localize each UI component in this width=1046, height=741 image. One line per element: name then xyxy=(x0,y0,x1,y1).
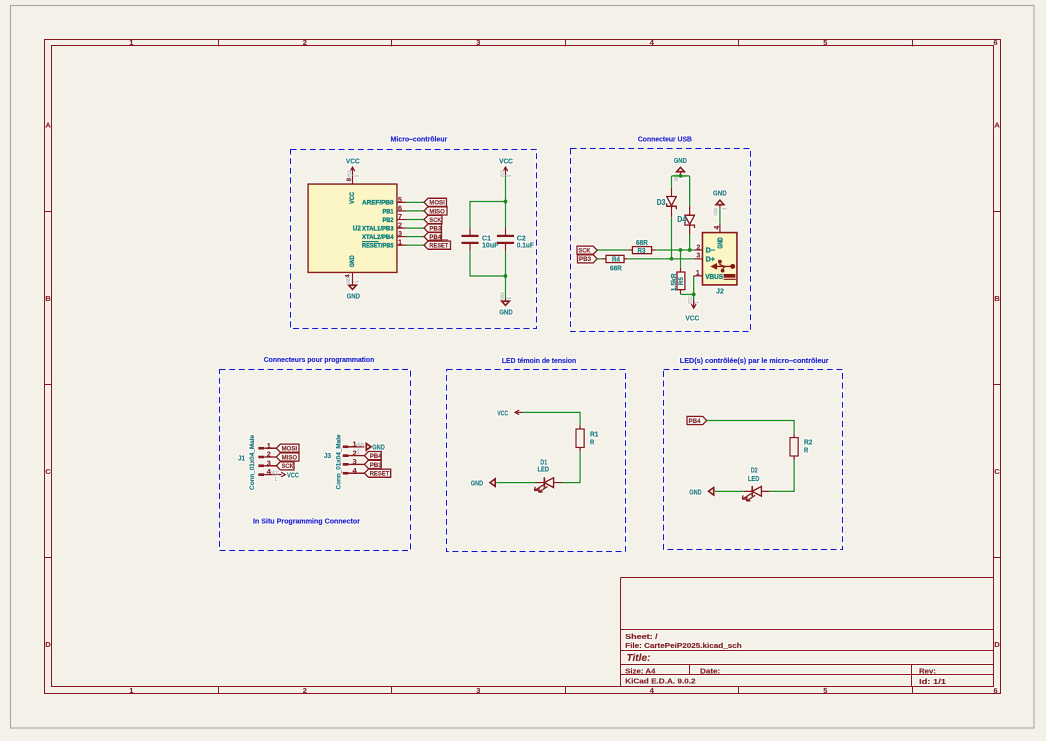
svg-text:RESET: RESET xyxy=(429,243,448,250)
capacitor C1 xyxy=(461,228,478,252)
global label PB4 LED2 xyxy=(687,416,707,424)
LED D1 xyxy=(535,477,563,492)
svg-text:68R: 68R xyxy=(636,240,648,247)
svg-text:Rev:: Rev: xyxy=(919,666,936,675)
global label SCK usb xyxy=(577,246,597,254)
connector J2 body xyxy=(702,233,737,286)
J1 pin numbers xyxy=(267,441,272,476)
R5 labels xyxy=(669,273,685,291)
svg-text:RESET/PB5: RESET/PB5 xyxy=(362,243,394,250)
svg-text:GND: GND xyxy=(674,156,688,165)
junction VCC rail xyxy=(504,200,508,204)
svg-text:GND: GND xyxy=(717,237,724,248)
svg-text:GND: GND xyxy=(689,487,702,496)
resistor R1 xyxy=(576,425,584,452)
svg-text:5: 5 xyxy=(823,38,827,47)
wire R4 to J2 pin3 xyxy=(628,258,694,260)
svg-text:1: 1 xyxy=(129,38,133,47)
power GND label LED1 xyxy=(471,479,495,488)
global label PB4 xyxy=(424,233,442,241)
svg-text:3: 3 xyxy=(267,458,271,467)
svg-text:1: 1 xyxy=(354,174,360,177)
C1 labels xyxy=(482,233,499,249)
svg-text:LED(s) contrôlée(s) par le mic: LED(s) contrôlée(s) par le micro–contrôl… xyxy=(680,356,829,365)
section box Connecteur USB xyxy=(571,149,751,332)
U2 pin stubs right xyxy=(397,202,406,245)
svg-text:KiCad E.D.A. 9.0.2: KiCad E.D.A. 9.0.2 xyxy=(625,677,695,686)
svg-text:C: C xyxy=(994,467,1000,476)
svg-text:XTAL2/PB4: XTAL2/PB4 xyxy=(362,234,394,241)
svg-text:1: 1 xyxy=(129,686,133,695)
svg-text:D: D xyxy=(994,640,1000,649)
svg-text:GND: GND xyxy=(713,189,727,198)
svg-text:0.1uF: 0.1uF xyxy=(517,240,534,249)
svg-text:MISO: MISO xyxy=(429,208,445,215)
R1 labels xyxy=(590,430,599,447)
svg-text:Micro–contrôleur: Micro–contrôleur xyxy=(391,134,448,143)
svg-text:GND: GND xyxy=(471,479,484,488)
section box LED temoin de tension xyxy=(447,370,626,552)
svg-text:J2: J2 xyxy=(716,286,724,295)
svg-text:3: 3 xyxy=(476,686,480,695)
svg-text:VCC: VCC xyxy=(271,470,279,476)
global label MOSI xyxy=(424,198,447,206)
wire VBUS down xyxy=(693,276,695,295)
junction GND top xyxy=(679,174,683,178)
wire C2 bottom to GND rail xyxy=(505,251,507,276)
power VCC above U2 xyxy=(346,156,360,184)
svg-text:MOSI: MOSI xyxy=(429,200,445,207)
power VCC label LED1 xyxy=(497,408,523,417)
wire D1 to GND xyxy=(496,482,535,484)
svg-text:In Situ Programming Connector: In Situ Programming Connector xyxy=(253,517,360,526)
svg-text:10uF: 10uF xyxy=(482,240,499,249)
svg-text:PB4: PB4 xyxy=(689,418,701,425)
U2 pin names xyxy=(349,192,394,268)
svg-text:3: 3 xyxy=(696,252,700,259)
junction R5 top on D- row xyxy=(679,248,683,252)
resistor R4 xyxy=(602,255,628,262)
wire R5 bottom to VCC xyxy=(681,293,694,295)
power GND J3 pin1 xyxy=(357,442,386,455)
global label PB3 usb xyxy=(578,255,598,263)
svg-text:D−: D− xyxy=(706,246,715,255)
R3 labels xyxy=(636,240,648,255)
svg-text:2: 2 xyxy=(696,244,700,251)
wire VCC down to junction xyxy=(505,175,507,201)
svg-text:R: R xyxy=(804,445,809,454)
svg-text:5: 5 xyxy=(823,686,827,695)
power VCC below (inverted) xyxy=(685,294,700,322)
svg-text:PB1: PB1 xyxy=(383,208,394,215)
svg-text:RESET: RESET xyxy=(370,471,390,478)
svg-text:Size: A4: Size: A4 xyxy=(625,667,656,676)
svg-text:R: R xyxy=(590,438,595,447)
global label MOSI J1 xyxy=(276,444,299,452)
resistor R3 xyxy=(628,247,656,254)
svg-text:File: CartePeiP2025.kicad_sch: File: CartePeiP2025.kicad_sch xyxy=(625,641,742,650)
svg-text:J3: J3 xyxy=(324,453,331,460)
svg-text:VCC: VCC xyxy=(347,170,353,178)
wire D2 to GND xyxy=(715,490,744,492)
D1 labels xyxy=(538,457,550,473)
svg-text:MOSI: MOSI xyxy=(282,446,298,453)
wire R5 top xyxy=(680,250,682,267)
wire GND split xyxy=(672,176,690,206)
svg-text:D+: D+ xyxy=(706,254,715,263)
svg-text:1: 1 xyxy=(722,207,728,210)
svg-text:LED: LED xyxy=(538,464,550,473)
power GND label LED2 xyxy=(689,487,713,496)
power VCC above C2 xyxy=(499,156,513,177)
svg-text:1: 1 xyxy=(354,280,360,283)
sheet inner frame xyxy=(52,46,994,687)
section box LEDs controlees xyxy=(664,370,843,550)
svg-text:VCC: VCC xyxy=(349,192,356,204)
svg-text:2: 2 xyxy=(303,686,307,695)
svg-text:Conn_01x04_Male: Conn_01x04_Male xyxy=(249,435,256,490)
power GND below U2 xyxy=(346,273,360,301)
svg-text:GND: GND xyxy=(714,208,720,216)
capacitor C2 xyxy=(497,228,514,252)
power GND below C2 xyxy=(499,276,513,316)
svg-text:Id: 1/1: Id: 1/1 xyxy=(919,677,946,686)
global label MISO J1 xyxy=(276,453,299,461)
IC U2 body xyxy=(308,184,397,273)
R2 labels xyxy=(804,437,813,454)
svg-text:3: 3 xyxy=(352,457,356,466)
J2 pin 4 top with GND power xyxy=(713,189,728,249)
svg-text:J1: J1 xyxy=(238,455,245,462)
svg-text:Connecteur USB: Connecteur USB xyxy=(638,134,692,143)
svg-text:D: D xyxy=(45,640,51,649)
power GND top of USB section xyxy=(674,156,689,182)
power VCC J1 pin4 xyxy=(271,470,299,483)
svg-text:PB3: PB3 xyxy=(429,226,441,233)
svg-text:1.5kR: 1.5kR xyxy=(669,273,678,291)
svg-text:PB3: PB3 xyxy=(579,256,591,263)
wire VCC to R1 xyxy=(523,412,580,424)
svg-text:6: 6 xyxy=(993,686,997,695)
svg-text:Connecteurs pour programmation: Connecteurs pour programmation xyxy=(264,355,375,364)
svg-text:B: B xyxy=(994,294,999,303)
svg-text:Conn_01x04_Male: Conn_01x04_Male xyxy=(335,434,342,489)
wire R2 to LED row xyxy=(770,460,794,491)
svg-text:MISO: MISO xyxy=(282,454,298,461)
wire C1 bottom to GND rail xyxy=(470,251,506,276)
svg-text:6: 6 xyxy=(993,38,997,47)
J2 USB icon xyxy=(711,260,736,279)
wire PB3 to R4 xyxy=(597,258,602,260)
svg-text:1: 1 xyxy=(696,270,700,277)
svg-text:VCC: VCC xyxy=(346,156,360,165)
frame column numbers xyxy=(129,38,997,695)
wire R3 to J2 pin2 xyxy=(656,249,694,251)
svg-text:2: 2 xyxy=(267,450,271,459)
svg-text:VCC: VCC xyxy=(287,470,299,479)
section box Micro-controleur xyxy=(291,150,537,329)
svg-text:PB3: PB3 xyxy=(370,462,382,469)
wire D4 to D- row xyxy=(689,235,691,251)
svg-text:GND: GND xyxy=(357,442,365,448)
global label RESET xyxy=(424,241,451,249)
svg-text:A: A xyxy=(45,121,51,130)
svg-text:Title:: Title: xyxy=(627,653,651,664)
svg-text:SCK: SCK xyxy=(282,463,294,470)
svg-text:VCC: VCC xyxy=(499,156,513,165)
frame column ticks xyxy=(219,40,913,694)
zener diode D4 xyxy=(685,205,695,234)
svg-text:GND: GND xyxy=(499,307,513,316)
svg-text:R5: R5 xyxy=(678,277,685,285)
J3 pin numbers xyxy=(352,440,357,475)
frame row ticks xyxy=(45,212,1001,558)
svg-text:GND: GND xyxy=(346,277,352,285)
svg-text:Date:: Date: xyxy=(700,667,720,676)
svg-text:A: A xyxy=(994,121,1000,130)
wires U2 pins to labels xyxy=(406,202,424,245)
junction D3 on D+ row xyxy=(670,257,674,261)
resistor R5 xyxy=(677,267,685,294)
svg-text:D4: D4 xyxy=(677,215,686,224)
svg-text:2: 2 xyxy=(303,38,307,47)
junction GND rail xyxy=(504,274,508,278)
global label MISO xyxy=(424,207,447,215)
svg-text:GND: GND xyxy=(500,292,506,300)
J2 pin 2 D- xyxy=(694,244,715,254)
svg-text:VBUS: VBUS xyxy=(705,272,723,281)
wire R1 to LED row xyxy=(562,452,580,483)
svg-text:68R: 68R xyxy=(610,265,622,272)
R4 labels xyxy=(610,257,622,273)
svg-text:VCC: VCC xyxy=(688,296,694,304)
global label PB4 J3 xyxy=(364,452,381,460)
svg-text:LED: LED xyxy=(748,474,760,483)
svg-text:D3: D3 xyxy=(657,198,666,207)
svg-text:VCC: VCC xyxy=(497,408,508,417)
svg-text:C: C xyxy=(45,467,51,476)
svg-text:PB2: PB2 xyxy=(383,217,394,224)
svg-text:GND: GND xyxy=(347,291,361,300)
svg-text:1: 1 xyxy=(274,477,277,483)
title block texts xyxy=(625,632,946,686)
wire SCK to R3 xyxy=(597,249,628,251)
LED D2 xyxy=(742,486,770,501)
C2 labels xyxy=(517,233,534,249)
J2 pin 1 VBUS xyxy=(694,270,724,281)
J2 pin 3 D+ xyxy=(694,252,715,263)
svg-text:4: 4 xyxy=(714,226,721,230)
svg-text:1: 1 xyxy=(694,301,700,304)
svg-text:XTAL1/PB3: XTAL1/PB3 xyxy=(362,226,394,233)
wire junction to C1 top xyxy=(470,202,506,228)
global label PB3 J3 xyxy=(364,460,381,468)
svg-text:PB4: PB4 xyxy=(370,453,382,460)
svg-text:SCK: SCK xyxy=(579,248,591,255)
svg-text:1: 1 xyxy=(507,297,513,300)
connector J3 pins xyxy=(343,445,365,474)
connector J1 pins xyxy=(258,447,276,476)
svg-text:R3: R3 xyxy=(638,248,646,255)
svg-text:U2: U2 xyxy=(353,225,361,232)
global label SCK J1 xyxy=(276,462,294,470)
svg-text:GND: GND xyxy=(372,443,385,452)
section box Connecteurs pour programmation xyxy=(220,370,411,551)
svg-text:SCK: SCK xyxy=(429,217,441,224)
wire junction down to C2 xyxy=(505,202,507,228)
global label PB3 xyxy=(424,224,442,232)
svg-text:AREF/PB0: AREF/PB0 xyxy=(362,200,394,207)
junction D4 on D- row xyxy=(688,248,692,252)
frame row letters xyxy=(45,121,1000,650)
wire D3 to D+ row xyxy=(671,217,673,259)
svg-text:VCC: VCC xyxy=(685,314,699,323)
global label RESET J3 xyxy=(364,469,390,477)
svg-text:3: 3 xyxy=(476,38,480,47)
svg-text:B: B xyxy=(45,294,50,303)
svg-text:1: 1 xyxy=(507,174,513,177)
junction VBUS-VCC xyxy=(692,292,696,296)
svg-text:1: 1 xyxy=(357,449,360,455)
resistor R2 xyxy=(790,433,798,460)
U2 pin numbers xyxy=(344,177,402,278)
svg-text:R4: R4 xyxy=(612,257,620,264)
global label SCK xyxy=(424,215,442,223)
svg-text:LED témoin de tension: LED témoin de tension xyxy=(502,356,576,365)
wire PB4 to R2 xyxy=(707,421,794,434)
title block frame xyxy=(621,578,994,687)
svg-text:GND: GND xyxy=(349,255,356,267)
D2 labels xyxy=(748,465,760,483)
svg-text:1: 1 xyxy=(267,441,271,450)
zener diode D3 xyxy=(667,188,677,218)
